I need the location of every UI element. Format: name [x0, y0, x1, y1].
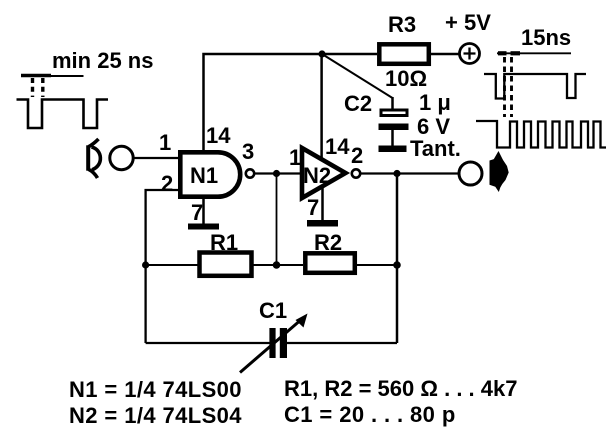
svg-text:1: 1	[289, 145, 301, 170]
svg-text:15ns: 15ns	[521, 25, 571, 50]
svg-text:14: 14	[206, 123, 231, 148]
svg-text:R3: R3	[388, 12, 416, 37]
svg-text:3: 3	[242, 139, 254, 164]
svg-text:R2: R2	[314, 230, 342, 255]
svg-text:N1 = 1/4 74LS00: N1 = 1/4 74LS00	[69, 377, 242, 402]
svg-text:10Ω: 10Ω	[385, 66, 427, 91]
svg-text:7: 7	[191, 200, 203, 225]
svg-text:C2: C2	[344, 91, 372, 116]
svg-text:C1: C1	[259, 298, 287, 323]
svg-text:R1, R2 = 560 Ω . . . 4k7: R1, R2 = 560 Ω . . . 4k7	[284, 376, 518, 401]
svg-text:min 25 ns: min 25 ns	[52, 48, 153, 73]
svg-text:1: 1	[159, 130, 171, 155]
svg-text:N2 = 1/4 74LS04: N2 = 1/4 74LS04	[69, 403, 242, 428]
svg-text:7: 7	[307, 195, 319, 220]
svg-text:14: 14	[325, 134, 350, 159]
svg-text:1 μ: 1 μ	[419, 90, 451, 115]
svg-text:2: 2	[161, 171, 173, 196]
svg-text:Tant.: Tant.	[410, 136, 461, 161]
svg-text:+ 5V: + 5V	[445, 10, 491, 35]
svg-text:C1 = 20 . . . 80 p: C1 = 20 . . . 80 p	[284, 402, 456, 427]
svg-text:2: 2	[351, 143, 363, 168]
svg-text:N2: N2	[303, 163, 331, 188]
svg-text:N1: N1	[190, 163, 218, 188]
svg-text:R1: R1	[210, 230, 238, 255]
